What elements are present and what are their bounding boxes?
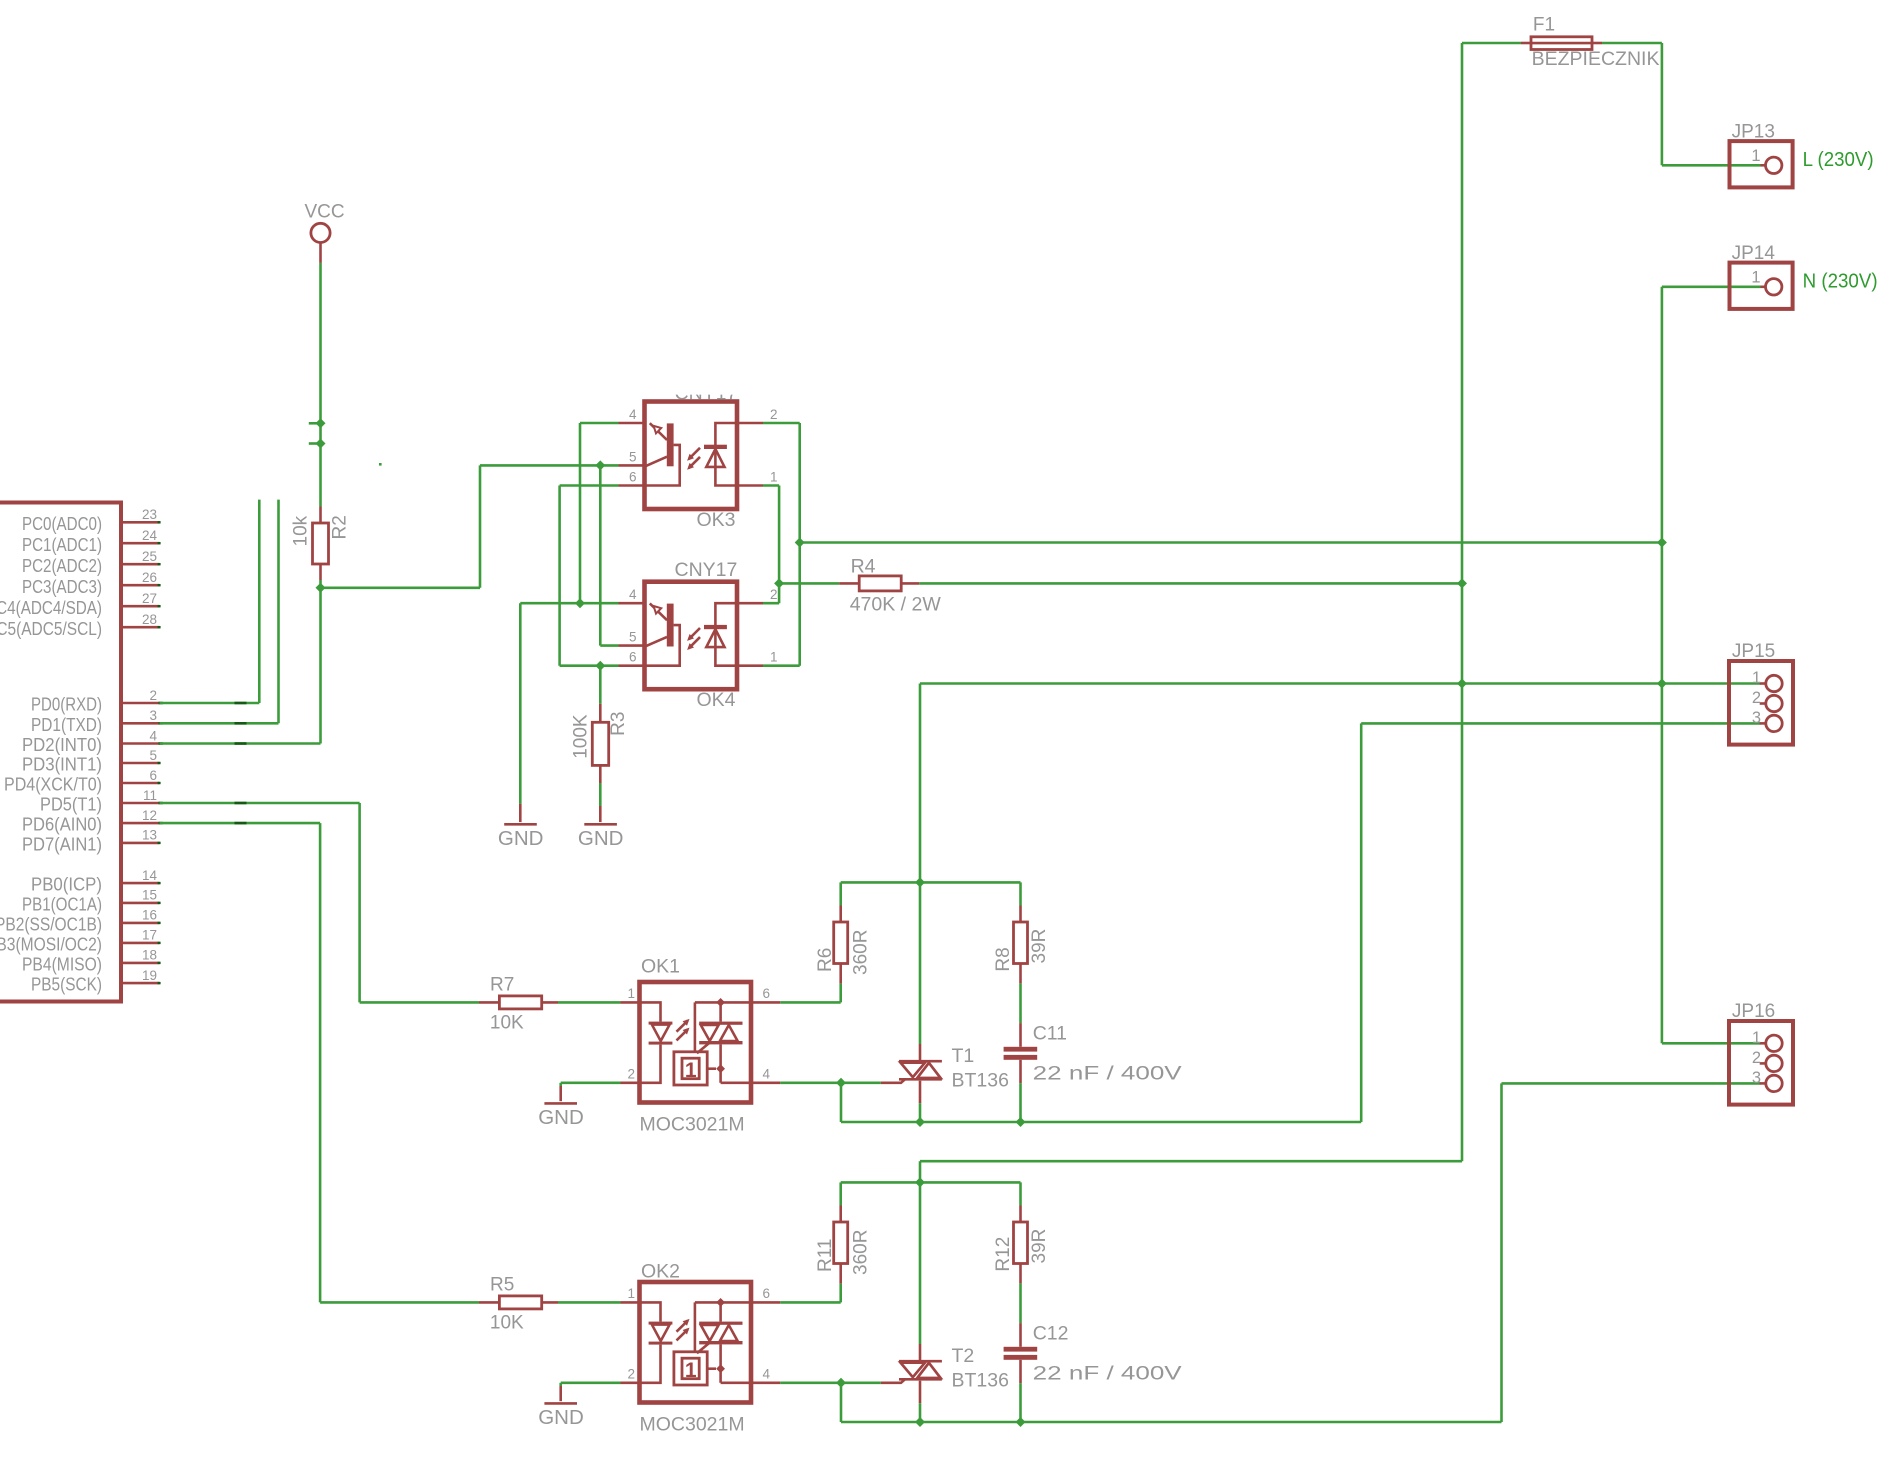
svg-text:GND: GND — [498, 827, 544, 850]
resistor R5 10K — [479, 1296, 558, 1309]
svg-text:3: 3 — [1752, 1069, 1761, 1087]
svg-text:PB4(MISO): PB4(MISO) — [22, 954, 102, 975]
svg-text:R4: R4 — [851, 555, 876, 577]
svg-text:18: 18 — [142, 948, 157, 963]
OK1 internal junction top — [716, 998, 725, 1007]
wire junction to R3 — [599, 666, 602, 704]
OK3 pin 2 — [737, 407, 778, 423]
resistor R4 470K/2W — [839, 576, 919, 591]
wire OK3 pin5 to OK4 pin5 — [599, 465, 602, 645]
IC U1 pin 14 PB0(ICP) — [31, 868, 161, 895]
svg-text:2: 2 — [627, 1066, 635, 1081]
OK4 pin 5 — [619, 630, 645, 646]
resistor R11 360R — [834, 1206, 848, 1284]
wire PD6 to R5 — [160, 822, 321, 825]
svg-text:22 nF / 400V: 22 nF / 400V — [1033, 1363, 1182, 1385]
OK2 pin 6 — [751, 1286, 780, 1302]
svg-text:2: 2 — [770, 587, 778, 602]
OK4 LED — [704, 603, 737, 666]
wire R6 to top rail — [839, 882, 842, 905]
OK1 pin 6 — [751, 986, 780, 1002]
dark net mark PD5 wire — [235, 802, 247, 805]
OK2 internal junction bottom — [716, 1364, 725, 1373]
resistor R2 10k — [313, 507, 329, 581]
svg-text:28: 28 — [142, 612, 157, 627]
wire C11 to bottom rail — [1019, 1083, 1022, 1122]
triac T1 BT136 — [881, 1044, 942, 1103]
svg-text:PC4(ADC4/SDA): PC4(ADC4/SDA) — [0, 597, 102, 618]
JP15 pin 3 pad — [1752, 709, 1782, 732]
svg-text:R2: R2 — [330, 515, 351, 539]
wire gate junction to bottom rail — [840, 1383, 843, 1422]
svg-text:R11: R11 — [815, 1239, 836, 1272]
wire OK3 pin4 down to OK4 pin4 — [580, 422, 619, 425]
wire OK pin4 to T1 gate — [780, 1082, 881, 1085]
svg-text:PD3(INT1): PD3(INT1) — [22, 754, 102, 775]
OK2 internal junction top — [716, 1298, 725, 1307]
IC U1 (ATmega) body box — [0, 503, 121, 1002]
svg-text:MOC3021M: MOC3021M — [640, 1114, 745, 1136]
bottom rail wire — [920, 1421, 1021, 1424]
junction R2 bottom — [316, 583, 326, 593]
svg-text:JP15: JP15 — [1732, 641, 1775, 662]
wire L vertical (fuse to T2) — [1461, 43, 1464, 1161]
wire OK3 pin1 to OK4 pin2 — [763, 484, 779, 487]
svg-text:BT136: BT136 — [952, 1070, 1009, 1092]
svg-text:1: 1 — [1752, 1029, 1761, 1047]
OK1 LED — [642, 1002, 673, 1082]
wire GND to OK1 pin2 — [561, 1082, 621, 1085]
IC U1 pin 19 PB5(SCK) — [31, 968, 161, 995]
OK4 pin 1 — [737, 650, 778, 666]
junction OK4 pin6 / R3 — [595, 661, 605, 671]
IC U1 pin 15 PB1(OC1A) — [22, 888, 161, 915]
svg-text:4: 4 — [629, 407, 637, 422]
wire riser to JP16 pin3 — [1500, 1083, 1503, 1422]
svg-text:C11: C11 — [1033, 1022, 1067, 1044]
wire triac T1 top — [919, 882, 922, 1044]
svg-text:R6: R6 — [815, 948, 836, 972]
junction R4 net — [774, 578, 784, 588]
wire OK3 pin6 down to OK4 pin6 — [560, 484, 619, 487]
junction OK4 pin4 — [575, 598, 585, 608]
connector JP16 box — [1729, 1021, 1793, 1105]
wire riser to JP15 pin3 — [1360, 723, 1363, 1122]
wire R5 to OK2 pin1 — [558, 1301, 621, 1304]
svg-text:25: 25 — [142, 549, 157, 564]
svg-text:1: 1 — [1752, 669, 1761, 687]
wire PD0 stub up — [160, 702, 260, 705]
svg-text:27: 27 — [142, 591, 157, 606]
wire OK pin6 to R11 — [780, 1301, 840, 1304]
svg-text:1: 1 — [627, 1286, 635, 1301]
svg-text:4: 4 — [763, 1066, 771, 1081]
wire junction to N vertical — [800, 541, 1662, 544]
svg-text:PC2(ADC2): PC2(ADC2) — [22, 555, 102, 576]
OK3 pin 4 — [619, 407, 645, 423]
svg-text:PD1(TXD): PD1(TXD) — [31, 714, 102, 735]
OK2 pin 1 — [621, 1286, 640, 1302]
resistor R12 39R — [1014, 1206, 1028, 1284]
JP13 pin 1 pad — [1751, 147, 1782, 174]
svg-text:11: 11 — [143, 788, 157, 803]
IC U1 pin 5 PD3(INT1) — [22, 748, 161, 775]
OK2 pin 2 — [621, 1366, 640, 1382]
svg-text:F1: F1 — [1533, 15, 1555, 36]
dark net mark PD0 wire — [235, 702, 247, 705]
svg-text:39R: 39R — [1029, 1229, 1050, 1264]
wire fuse right to JP13 — [1602, 42, 1662, 45]
VCC supply symbol — [305, 202, 345, 263]
svg-text:PD6(AIN0): PD6(AIN0) — [22, 814, 102, 835]
connector JP14 box — [1730, 263, 1793, 309]
bottom rail wire — [920, 1121, 1021, 1124]
triac T2 BT136 — [881, 1344, 942, 1403]
wire PD5 to R7 — [160, 802, 360, 805]
svg-text:PC3(ADC3): PC3(ADC3) — [22, 576, 102, 597]
fuse F1 — [1521, 37, 1602, 50]
JP15 pin 2 pad — [1752, 689, 1782, 712]
svg-text:10K: 10K — [490, 1313, 524, 1334]
wire VCC to R2 — [319, 263, 322, 507]
svg-text:PD2(INT0): PD2(INT0) — [22, 734, 102, 755]
svg-text:OK1: OK1 — [641, 956, 680, 978]
JP16 pin 1 pad — [1752, 1029, 1782, 1052]
svg-text:BT136: BT136 — [952, 1370, 1009, 1392]
junction at OK3 pin5 — [595, 460, 605, 470]
svg-text:BEZPIECZNIK: BEZPIECZNIK — [1532, 48, 1660, 70]
junction top rail — [915, 877, 925, 887]
junction on VCC wire (upper) — [309, 418, 326, 428]
svg-text:6: 6 — [629, 470, 637, 485]
svg-text:2: 2 — [1752, 1049, 1761, 1067]
wire N vertical (JP14 to JP16) — [1662, 285, 1761, 288]
svg-text:39R: 39R — [1029, 929, 1050, 964]
wire OK3 pin2 to N net — [763, 422, 800, 425]
svg-text:23: 23 — [142, 507, 157, 522]
IC U1 pin 26 PC3(ADC3) — [22, 570, 161, 597]
wire GND to OK2 pin2 — [561, 1382, 621, 1385]
junction T1 bottom — [915, 1117, 925, 1127]
svg-text:10k: 10k — [291, 515, 312, 546]
OK2 pin 4 — [751, 1366, 780, 1382]
svg-text:26: 26 — [142, 570, 157, 585]
wire gate junction to bottom rail — [840, 1083, 843, 1122]
wire R12 to C12 — [1019, 1283, 1022, 1323]
svg-text:JP14: JP14 — [1732, 243, 1776, 264]
resistor R6 360R — [834, 906, 848, 984]
bottom rail T1 to JP15 pin3 riser — [1021, 1121, 1362, 1124]
svg-text:N (230V): N (230V) — [1803, 270, 1878, 293]
svg-text:14: 14 — [142, 868, 158, 883]
IC U1 pin 4 PD2(INT0) — [22, 728, 163, 755]
svg-text:360R: 360R — [851, 1230, 872, 1275]
OK2 LED — [642, 1302, 673, 1382]
IC U1 pin 25 PC2(ADC2) — [22, 549, 161, 576]
ground symbol GND (R3) — [578, 806, 624, 850]
junction T2 bottom — [915, 1417, 925, 1427]
svg-text:5: 5 — [629, 630, 637, 645]
svg-text:1: 1 — [1751, 269, 1760, 287]
svg-text:12: 12 — [142, 808, 157, 823]
capacitor C12 22nF/400V — [1004, 1323, 1038, 1383]
svg-text:10K: 10K — [490, 1013, 524, 1034]
wire triac T2 top — [919, 1182, 922, 1344]
OK2 driver box with 1 — [674, 1343, 716, 1385]
svg-text:MOC3021M: MOC3021M — [640, 1414, 745, 1436]
svg-text:PB3(MOSI/OC2): PB3(MOSI/OC2) — [0, 934, 102, 955]
connector JP13 box — [1730, 141, 1793, 187]
svg-text:JP13: JP13 — [1732, 122, 1775, 143]
OK3 phototransistor — [645, 423, 680, 485]
wire R2 to PD2 pin 4 — [319, 580, 322, 744]
svg-text:R7: R7 — [490, 975, 514, 996]
dark net mark PD2 wire — [235, 742, 247, 745]
wire R4 to L vertical — [919, 582, 1462, 585]
svg-text:OK3: OK3 — [696, 509, 735, 531]
OK4 pin 6 — [619, 650, 645, 666]
stray dot — [379, 463, 382, 466]
IC U1 pin 12 PD6(AIN0) — [22, 808, 163, 835]
svg-text:PB5(SCK): PB5(SCK) — [31, 974, 102, 995]
wire junction to R4 — [779, 582, 839, 585]
junction N at OK3 pin2 net — [1657, 538, 1667, 548]
wire T2 rail up to L vertical — [919, 1161, 922, 1182]
svg-text:19: 19 — [142, 968, 157, 983]
dark net mark PD1 wire — [235, 722, 247, 725]
connector JP15 box — [1729, 661, 1793, 745]
OK1 internal triac — [695, 1002, 749, 1082]
OK3 pin 6 — [619, 470, 645, 486]
OK1 light arrows — [677, 1019, 690, 1041]
OK1 pin 2 — [621, 1066, 640, 1082]
svg-text:1: 1 — [1751, 147, 1760, 165]
OK4 pin 2 — [737, 587, 778, 603]
optocoupler OK2 MOC3021M box — [640, 1282, 752, 1403]
svg-text:T2: T2 — [952, 1345, 975, 1367]
svg-text:GND: GND — [538, 1406, 584, 1429]
IC U1 pin 16 PB2(SS/OC1B) — [0, 908, 161, 935]
wire T1 rail up to JP15 pin1 row — [919, 684, 922, 883]
junction C12 bottom — [1016, 1417, 1026, 1427]
svg-text:22 nF / 400V: 22 nF / 400V — [1033, 1063, 1182, 1085]
optocoupler OK4 CNY17 box — [645, 582, 738, 690]
JP16 pin 3 pad — [1752, 1069, 1782, 1092]
svg-text:PD5(T1): PD5(T1) — [40, 794, 102, 815]
wire R7 to OK1 pin1 — [558, 1001, 621, 1004]
svg-text:R8: R8 — [993, 947, 1014, 971]
svg-text:PC0(ADC0): PC0(ADC0) — [22, 513, 102, 534]
svg-text:5: 5 — [149, 748, 157, 763]
junction gate wire — [836, 1378, 846, 1388]
svg-text:1: 1 — [770, 470, 778, 485]
svg-text:PB2(SS/OC1B): PB2(SS/OC1B) — [0, 914, 102, 935]
svg-text:1: 1 — [627, 986, 635, 1001]
wire PD1 stub up — [160, 722, 279, 725]
IC U1 pin 13 PD7(AIN1) — [22, 828, 161, 855]
bottom rail T2 to JP16 pin3 riser — [1021, 1421, 1502, 1424]
svg-text:OK4: OK4 — [696, 689, 735, 711]
IC U1 pin 2 PD0(RXD) — [31, 688, 163, 715]
svg-text:1: 1 — [685, 1359, 697, 1382]
ground symbol GND (OK1) — [538, 1086, 584, 1129]
svg-text:PD7(AIN1): PD7(AIN1) — [22, 834, 102, 855]
wire R11 to top rail — [839, 1182, 842, 1205]
svg-text:360R: 360R — [851, 930, 872, 975]
svg-text:6: 6 — [629, 650, 637, 665]
IC U1 pin 6 PD4(XCK/T0) — [4, 768, 161, 795]
JP14 pin 1 pad — [1751, 269, 1782, 295]
IC U1 pin 28 PC5(ADC5/SCL) — [0, 612, 161, 639]
svg-text:C12: C12 — [1033, 1322, 1069, 1344]
JP16 pin 2 pad — [1752, 1049, 1782, 1072]
svg-text:2: 2 — [1752, 689, 1761, 707]
svg-text:2: 2 — [770, 407, 778, 422]
junction JP15 row at N vertical — [1657, 679, 1667, 689]
OK4 phototransistor — [645, 603, 680, 665]
svg-text:100K: 100K — [571, 714, 592, 759]
wire junction down to OK4 pin1 — [798, 543, 801, 666]
svg-text:6: 6 — [763, 1286, 771, 1301]
capacitor C11 22nF/400V — [1004, 1023, 1038, 1083]
svg-text:CNY17: CNY17 — [675, 559, 738, 581]
wire OK pin4 to T2 gate — [780, 1382, 881, 1385]
wire top rail to R12 — [1019, 1182, 1022, 1205]
svg-text:13: 13 — [142, 828, 157, 843]
OK3 pin 5 — [619, 449, 645, 465]
svg-text:17: 17 — [142, 928, 157, 943]
ground symbol GND (OK2) — [538, 1386, 584, 1429]
svg-text:2: 2 — [149, 688, 157, 703]
svg-text:GND: GND — [578, 827, 624, 850]
junction C11 bottom — [1016, 1117, 1026, 1127]
junction gate wire — [836, 1078, 846, 1088]
svg-text:470K / 2W: 470K / 2W — [850, 594, 942, 616]
wire T2 to bottom rail — [919, 1403, 922, 1422]
resistor R3 100K — [592, 704, 608, 783]
svg-text:3: 3 — [149, 708, 157, 723]
junction OK3 pin2 net — [795, 538, 805, 548]
wire OK4 pin4 junction to GND — [520, 602, 580, 605]
IC U1 pin 3 PD1(TXD) — [31, 708, 163, 735]
dark net mark PD6 wire — [235, 822, 247, 825]
wire T1 to bottom rail — [919, 1103, 922, 1122]
svg-text:1: 1 — [685, 1059, 697, 1082]
wire C12 to bottom rail — [1019, 1383, 1022, 1422]
svg-text:R5: R5 — [490, 1275, 514, 1296]
junction R4 at L vertical — [1457, 578, 1467, 588]
junction JP15 row at L vertical — [1457, 679, 1467, 689]
OK4 light arrows — [687, 628, 700, 650]
svg-text:4: 4 — [763, 1366, 771, 1381]
wire OK pin6 to R6 — [780, 1001, 840, 1004]
optocoupler OK3 CNY17 box — [645, 402, 738, 510]
svg-text:15: 15 — [142, 888, 157, 903]
svg-text:6: 6 — [763, 986, 771, 1001]
OK2 light arrows — [677, 1319, 690, 1341]
svg-text:JP16: JP16 — [1732, 1001, 1775, 1022]
IC U1 pin 24 PC1(ADC1) — [22, 528, 161, 555]
OK4 pin 4 — [619, 587, 645, 603]
svg-text:16: 16 — [142, 908, 157, 923]
svg-text:GND: GND — [538, 1106, 584, 1129]
OK2 internal triac — [695, 1302, 749, 1382]
wire R2 junction to OK3 pin5 — [321, 586, 481, 589]
IC U1 pin 27 PC4(ADC4/SDA) — [0, 591, 161, 618]
svg-text:OK2: OK2 — [641, 1261, 680, 1283]
junction top rail — [915, 1177, 925, 1187]
OK1 pin 1 — [621, 986, 640, 1002]
wire top rail to R8 — [1019, 882, 1022, 905]
svg-text:PD0(RXD): PD0(RXD) — [31, 694, 102, 715]
svg-text:5: 5 — [629, 449, 637, 464]
JP15 pin 1 pad — [1752, 669, 1782, 692]
svg-text:4: 4 — [149, 728, 157, 743]
optocoupler OK1 MOC3021M box — [640, 982, 752, 1103]
IC U1 pin 18 PB4(MISO) — [22, 948, 161, 975]
OK3 light arrows — [687, 448, 700, 470]
ground symbol GND (left) — [498, 804, 544, 850]
svg-text:PD4(XCK/T0): PD4(XCK/T0) — [4, 774, 102, 795]
svg-text:3: 3 — [1752, 709, 1761, 727]
svg-text:4: 4 — [629, 587, 637, 602]
resistor R8 39R — [1014, 906, 1028, 984]
svg-text:PB1(OC1A): PB1(OC1A) — [22, 894, 102, 915]
wire R8 to C11 — [1019, 983, 1022, 1023]
wire R3 to GND — [599, 783, 602, 806]
svg-text:R3: R3 — [608, 712, 629, 736]
OK1 pin 4 — [751, 1066, 780, 1082]
IC U1 pin 17 PB3(MOSI/OC2) — [0, 928, 161, 955]
IC U1 pin 23 PC0(ADC0) — [22, 507, 161, 534]
svg-text:6: 6 — [149, 768, 157, 783]
OK3 pin 1 — [737, 470, 778, 486]
resistor R7 10K — [479, 996, 558, 1009]
svg-text:1: 1 — [770, 650, 778, 665]
svg-text:R12: R12 — [993, 1237, 1014, 1272]
svg-text:24: 24 — [142, 528, 158, 543]
svg-text:PB0(ICP): PB0(ICP) — [31, 874, 102, 895]
OK1 driver box with 1 — [674, 1043, 716, 1085]
OK1 internal junction bottom — [716, 1064, 725, 1073]
OK3 CNY17 value label (clipped) — [675, 382, 738, 404]
wire fuse left — [1462, 42, 1521, 45]
IC U1 pin 11 PD5(T1) — [40, 788, 163, 815]
svg-text:2: 2 — [627, 1366, 635, 1381]
svg-text:PC1(ADC1): PC1(ADC1) — [22, 534, 102, 555]
svg-text:VCC: VCC — [305, 202, 345, 223]
svg-text:L (230V): L (230V) — [1803, 148, 1874, 171]
svg-text:PC5(ADC5/SCL): PC5(ADC5/SCL) — [0, 618, 102, 639]
junction on VCC wire (lower) — [309, 439, 326, 449]
svg-text:T1: T1 — [952, 1045, 975, 1067]
OK3 LED — [704, 423, 737, 486]
